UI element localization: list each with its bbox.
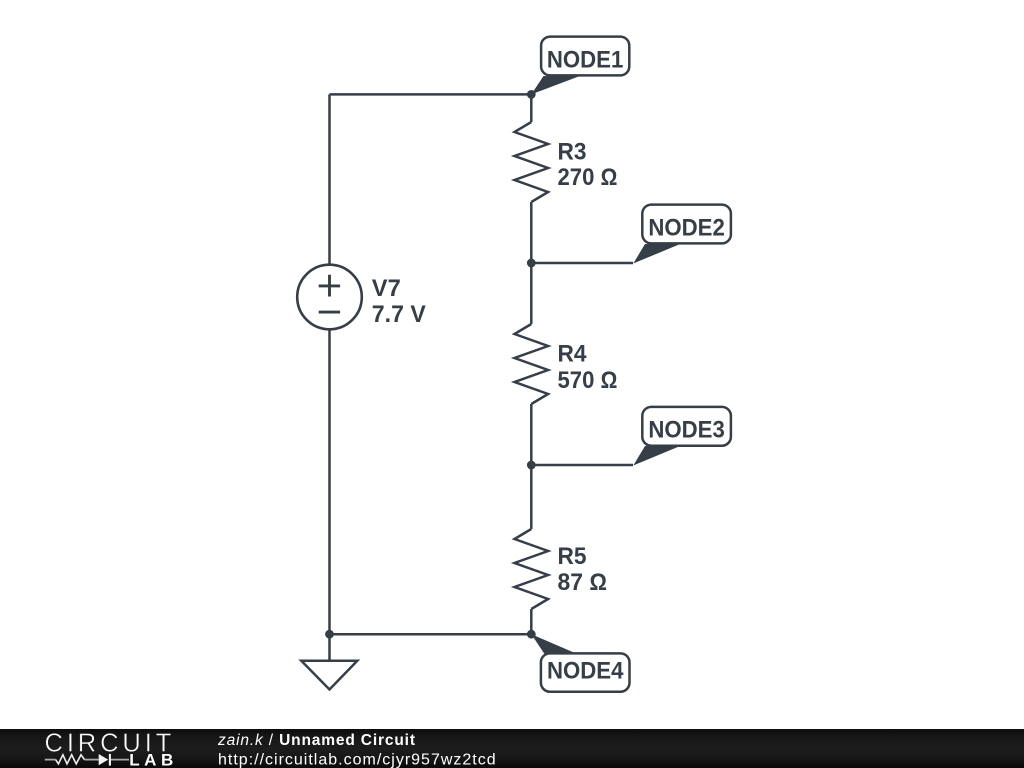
logo resistor-diode glyph (45, 754, 129, 766)
voltage source V7 (297, 265, 362, 330)
wire left rail upper (V7 plus lead) (328, 94, 331, 264)
wire left rail lower (V7 minus lead) (328, 330, 331, 634)
svg-text:R4: R4 (558, 341, 588, 368)
wire NODE3 stub (531, 464, 633, 467)
junction NODE2 (527, 259, 536, 268)
wire right rail R3 top lead (530, 94, 533, 122)
svg-text:NODE3: NODE3 (648, 417, 725, 444)
wire right rail R4 top lead (530, 263, 533, 324)
svg-text:NODE2: NODE2 (648, 214, 725, 241)
wire right rail R3 bottom lead (530, 202, 533, 263)
junction bottom-left (325, 630, 334, 639)
wire top horizontal from V7 plus to NODE1 (330, 93, 532, 96)
svg-text:R5: R5 (558, 543, 587, 570)
svg-text:zain.k / Unnamed Circuit: zain.k / Unnamed Circuit (217, 732, 416, 749)
wire right rail R4 bottom lead (530, 404, 533, 465)
resistor R3 (515, 122, 549, 202)
svg-text:LAB: LAB (129, 751, 178, 768)
label R4 570 ohm (558, 341, 618, 394)
svg-text:7.7 V: 7.7 V (372, 301, 426, 328)
resistor R5 (515, 529, 549, 609)
svg-text:R3: R3 (558, 139, 587, 166)
junction NODE3 (527, 461, 536, 470)
node NODE1 flag (531, 37, 629, 95)
wire right rail R5 top lead (530, 465, 533, 529)
svg-text:570 Ω: 570 Ω (558, 367, 618, 394)
node NODE3 flag (633, 407, 731, 466)
node NODE2 flag (633, 205, 731, 264)
label V7 value 7.7 V (372, 275, 426, 328)
svg-text:270 Ω: 270 Ω (558, 164, 618, 191)
wire bottom horizontal (330, 633, 532, 636)
svg-text:NODE1: NODE1 (547, 47, 624, 74)
svg-text:NODE4: NODE4 (547, 658, 624, 685)
footer bar (0, 729, 1024, 768)
svg-text:V7: V7 (372, 275, 401, 302)
wire NODE2 stub (531, 262, 633, 265)
resistor R4 (515, 324, 549, 404)
label R5 87 ohm (558, 543, 608, 596)
wire right rail R5 bottom lead (530, 609, 533, 634)
label R3 270 ohm (558, 139, 618, 192)
ground (301, 634, 357, 689)
junction NODE1 (527, 90, 536, 99)
svg-text:http://circuitlab.com/cjyr957w: http://circuitlab.com/cjyr957wz2tcd (218, 751, 497, 768)
junction NODE4 (527, 630, 536, 639)
svg-text:87 Ω: 87 Ω (558, 569, 608, 596)
node NODE4 flag (531, 634, 629, 692)
